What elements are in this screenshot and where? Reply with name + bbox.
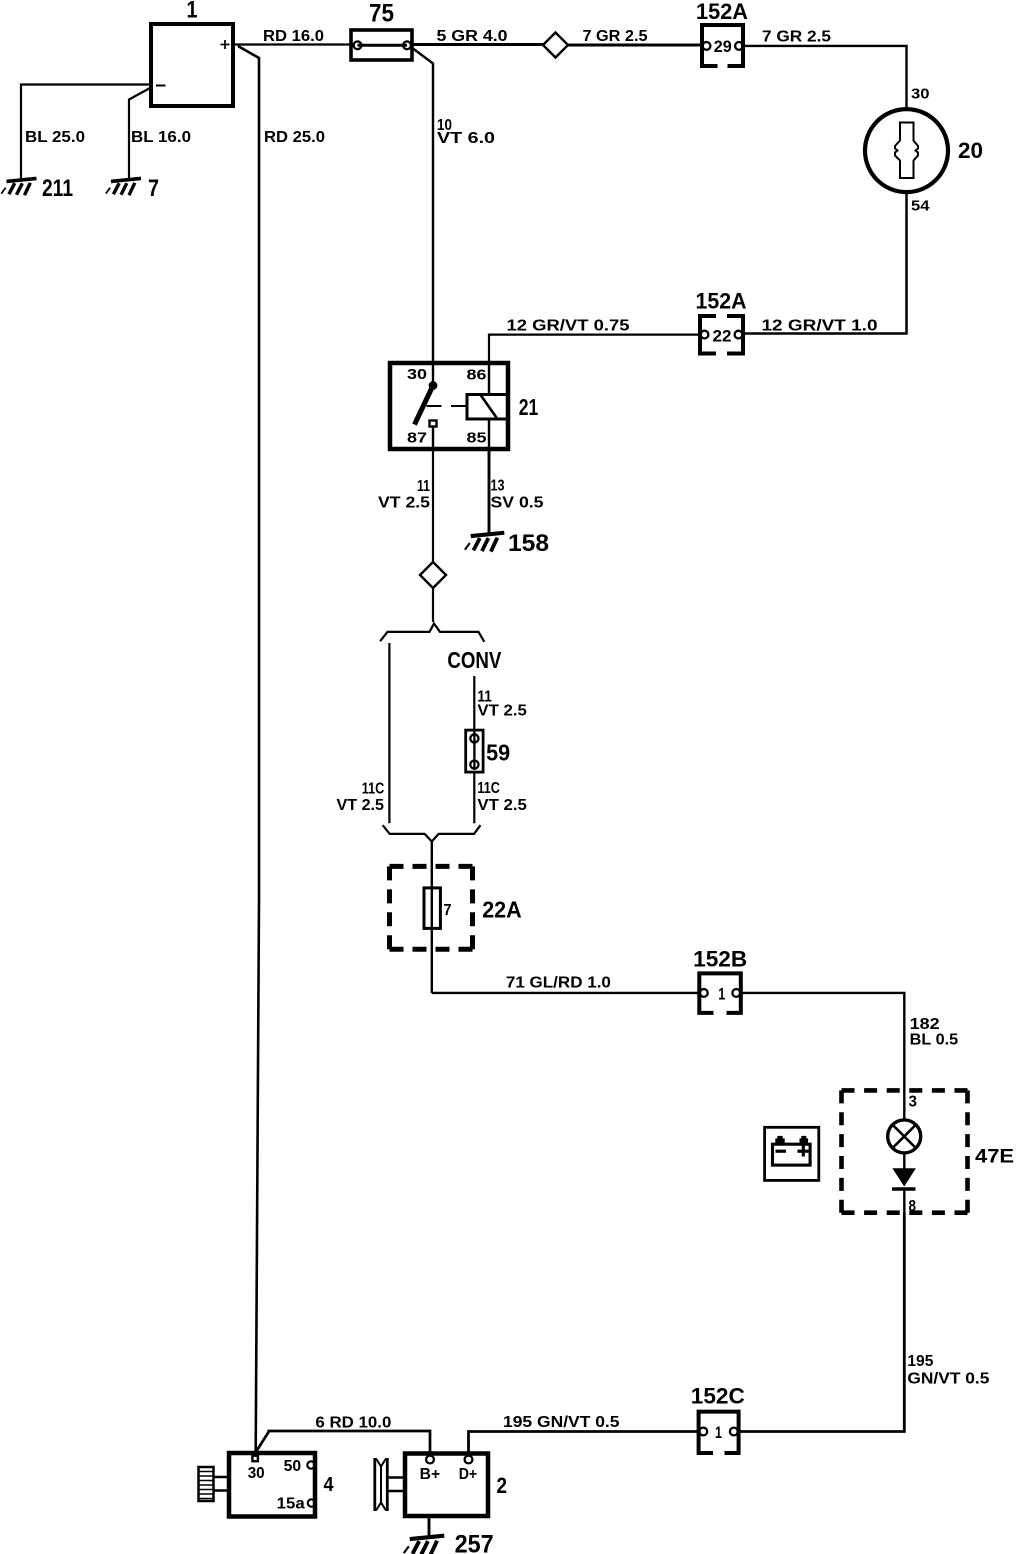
svg-text:BL 25.0: BL 25.0 [25,129,85,146]
connector 152A pin 29 [696,0,748,66]
ground 211 [1,175,73,202]
svg-text:257: 257 [455,1531,494,1554]
svg-text:30: 30 [407,367,427,383]
svg-text:VT 2.5: VT 2.5 [477,797,527,814]
svg-text:211: 211 [42,175,73,202]
lamp unit box 47E [842,1090,1015,1212]
svg-text:152B: 152B [693,947,747,972]
svg-text:VT 6.0: VT 6.0 [437,130,495,147]
wire 11C VT 2.5 below fuse [474,774,527,824]
fuse 75 [351,0,412,60]
ground 257 [404,1516,494,1554]
svg-text:22A: 22A [482,897,522,923]
wire lamp to diode [903,1154,905,1168]
svg-text:158: 158 [508,530,549,557]
pin 8 wire [904,1189,916,1215]
svg-text:11C: 11C [477,780,500,797]
svg-text:152A: 152A [696,289,747,314]
svg-text:30: 30 [248,1465,265,1482]
wire 6 RD 10.0 [256,1415,430,1457]
svg-text:VT 2.5: VT 2.5 [337,797,385,814]
svg-text:21: 21 [519,394,539,420]
svg-text:30: 30 [911,87,930,103]
key knob of switch 4 [199,1467,230,1501]
wire to CONV brace [432,588,434,622]
relay 21 [390,363,538,449]
svg-text:29: 29 [714,38,732,56]
fuse 59 [466,730,510,772]
wire 195 GN/VT 0.5 right [741,1213,990,1432]
ignition switch 20 [865,109,983,214]
svg-text:20: 20 [958,138,983,163]
svg-text:15a: 15a [277,1496,305,1513]
svg-text:1: 1 [715,1424,722,1442]
svg-text:1: 1 [187,0,198,24]
connector 152B pin 1 [693,947,747,1013]
wire 11 VT 2.5 [378,449,433,563]
ignition switch 4 [229,1453,334,1517]
svg-text:86: 86 [467,368,487,384]
ground 158 [465,530,549,557]
svg-text:7 GR 2.5: 7 GR 2.5 [583,28,648,45]
wire BL 25.0 [21,85,150,180]
ground 7 [106,175,159,202]
svg-text:7 GR 2.5: 7 GR 2.5 [762,29,831,46]
svg-text:54: 54 [911,199,930,215]
wire 13 SV 0.5 [489,449,544,534]
wire 7 GR 2.5 to ignition [743,29,930,110]
wire 71 GL/RD 1.0 [432,975,700,993]
svg-text:47E: 47E [975,1146,1014,1168]
svg-text:VT 2.5: VT 2.5 [477,703,527,720]
wire 11 VT 2.5 right branch [474,676,527,730]
svg-text:5 GR 4.0: 5 GR 4.0 [437,28,508,45]
wire 12 GR/VT 1.0 [743,192,907,334]
svg-text:SV 0.5: SV 0.5 [491,495,544,512]
svg-text:8: 8 [909,1198,917,1215]
svg-text:RD 25.0: RD 25.0 [264,129,325,146]
svg-text:87: 87 [407,431,427,447]
svg-text:152C: 152C [691,1384,745,1409]
svg-text:152A: 152A [696,0,748,24]
svg-text:4: 4 [324,1474,335,1496]
lamp [888,1120,921,1153]
wire RD 16.0 [235,28,353,45]
svg-text:182: 182 [910,1016,940,1033]
svg-text:RD 16.0: RD 16.0 [263,28,324,45]
svg-text:12 GR/VT 0.75: 12 GR/VT 0.75 [507,318,630,335]
svg-text:195 GN/VT 0.5: 195 GN/VT 0.5 [503,1414,620,1431]
svg-text:BL 0.5: BL 0.5 [910,1032,959,1049]
junction diamond 2 [420,562,446,588]
svg-text:59: 59 [486,740,510,766]
svg-text:22: 22 [713,328,732,346]
svg-text:CONV: CONV [447,647,501,673]
connector 152C pin 1 [691,1384,745,1454]
svg-text:GN/VT 0.5: GN/VT 0.5 [907,1371,989,1388]
svg-text:VT 2.5: VT 2.5 [378,495,430,512]
svg-text:75: 75 [369,0,394,28]
svg-text:195: 195 [907,1353,933,1370]
CONV top brace [380,624,502,673]
svg-text:11C: 11C [362,781,385,798]
svg-text:50: 50 [284,1458,302,1475]
svg-text:BL 16.0: BL 16.0 [131,129,191,146]
svg-text:11: 11 [417,478,430,495]
svg-text:2: 2 [497,1473,508,1498]
wire through fuse 22A [431,842,433,993]
wire RD 25.0 [238,46,325,1452]
svg-text:7: 7 [148,175,159,202]
svg-text:85: 85 [467,431,487,447]
alternator 2 [405,1454,507,1517]
svg-text:3: 3 [909,1094,918,1111]
connector 152A pin 22 [696,289,747,354]
wire 5 GR 4.0 [413,28,544,45]
pin 3 wire [904,1089,917,1119]
svg-text:B+: B+ [420,1466,441,1483]
junction diamond [543,33,568,58]
wire 195 GN/VT 0.5 bottom [469,1414,699,1456]
wire 12 GR/VT 0.75 [489,318,700,363]
fuse box 22A [390,866,522,949]
svg-text:13: 13 [491,478,505,495]
wire BL 16.0 [129,88,191,179]
svg-text:71 GL/RD 1.0: 71 GL/RD 1.0 [506,975,611,992]
svg-text:7: 7 [444,902,452,919]
CONV bottom brace [383,825,481,841]
battery 1 [151,0,233,106]
wire 182 BL 0.5 [741,993,959,1089]
svg-text:1: 1 [718,986,725,1004]
svg-text:12 GR/VT 1.0: 12 GR/VT 1.0 [762,318,878,335]
diode [892,1168,916,1189]
battery icon [765,1127,819,1180]
pulley of alternator 2 [375,1458,405,1511]
wire 10 VT 6.0 [411,47,495,362]
wire 11C VT 2.5 left branch [337,643,390,823]
svg-text:D+: D+ [459,1466,478,1483]
svg-text:6 RD 10.0: 6 RD 10.0 [315,1415,391,1432]
wire 7 GR 2.5 [568,28,702,45]
